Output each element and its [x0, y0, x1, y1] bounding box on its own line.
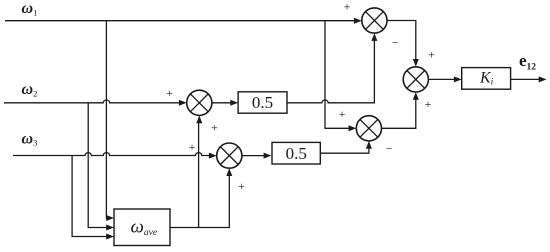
- svg-text:+: +: [189, 140, 196, 154]
- svg-text:0.5: 0.5: [252, 93, 273, 112]
- svg-text:+: +: [211, 120, 218, 134]
- svg-text:+: +: [425, 97, 432, 111]
- svg-text:+: +: [344, 0, 351, 14]
- svg-text:0.5: 0.5: [286, 144, 307, 163]
- svg-text:+: +: [428, 48, 435, 62]
- svg-text:+: +: [339, 107, 346, 121]
- svg-text:+: +: [166, 86, 173, 100]
- svg-text:+: +: [238, 179, 245, 193]
- svg-text:−: −: [392, 36, 399, 50]
- svg-text:−: −: [386, 142, 393, 156]
